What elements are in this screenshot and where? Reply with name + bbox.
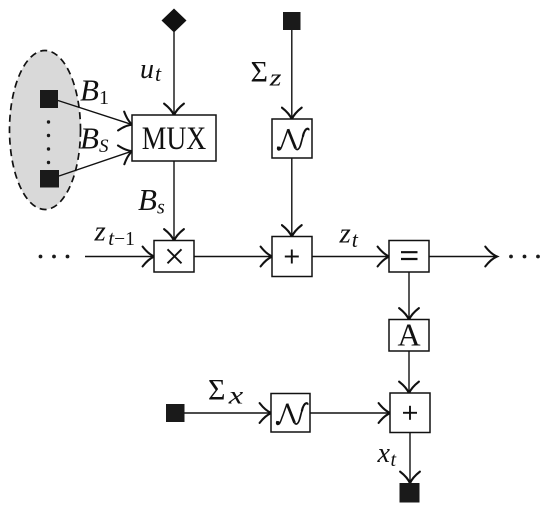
wire plus bottom to x_t square <box>409 433 411 482</box>
node u_t diamond <box>162 9 187 33</box>
svg-text:Σ: Σ <box>251 56 268 89</box>
glyph plus bottom <box>403 406 417 420</box>
box N (observation noise) <box>271 394 310 433</box>
box A <box>389 320 429 352</box>
node BS square <box>40 170 59 188</box>
svg-text:x: x <box>228 382 244 410</box>
node x_t square <box>400 483 420 503</box>
node B1 square <box>40 90 58 108</box>
glyph script N bottom <box>276 403 307 424</box>
wire plus to equals <box>312 256 388 258</box>
wire equals to right cdots <box>429 256 496 258</box>
wire BS to MUX <box>59 152 131 176</box>
svg-text:z: z <box>269 64 282 91</box>
box times <box>154 241 194 273</box>
node sigma_x square <box>166 404 185 422</box>
glyph script N top <box>277 129 308 150</box>
svg-text:Σ: Σ <box>208 374 225 407</box>
box N (process noise) <box>272 119 312 158</box>
wire B1 to MUX <box>58 101 131 125</box>
box plus top <box>272 237 312 277</box>
box MUX <box>132 115 216 161</box>
wire diamond to MUX <box>173 32 175 114</box>
wire cdots to times <box>85 256 153 258</box>
box plus bottom <box>390 393 430 433</box>
left cdots <box>39 255 70 259</box>
state cluster ellipse <box>10 51 81 210</box>
glyph equals <box>401 252 418 259</box>
wire times to plus <box>194 256 271 258</box>
svg-text:A: A <box>397 317 420 353</box>
wire N bottom to plus bottom <box>310 412 389 414</box>
node sigma_z square <box>283 12 301 30</box>
wire sigma_x square to N bottom <box>185 412 270 414</box>
glyph times <box>168 249 182 263</box>
wire MUX to times <box>173 161 175 239</box>
wire equals to A <box>408 272 410 318</box>
right cdots <box>509 255 540 259</box>
wire A to plus bottom <box>408 351 410 392</box>
box equals <box>389 241 429 273</box>
glyph plus top <box>285 250 299 264</box>
svg-text:MUX: MUX <box>142 121 207 157</box>
vertical dots inside ellipse <box>47 120 50 164</box>
wire sigma_z square to N <box>291 30 293 118</box>
wire N to plus <box>291 158 293 235</box>
